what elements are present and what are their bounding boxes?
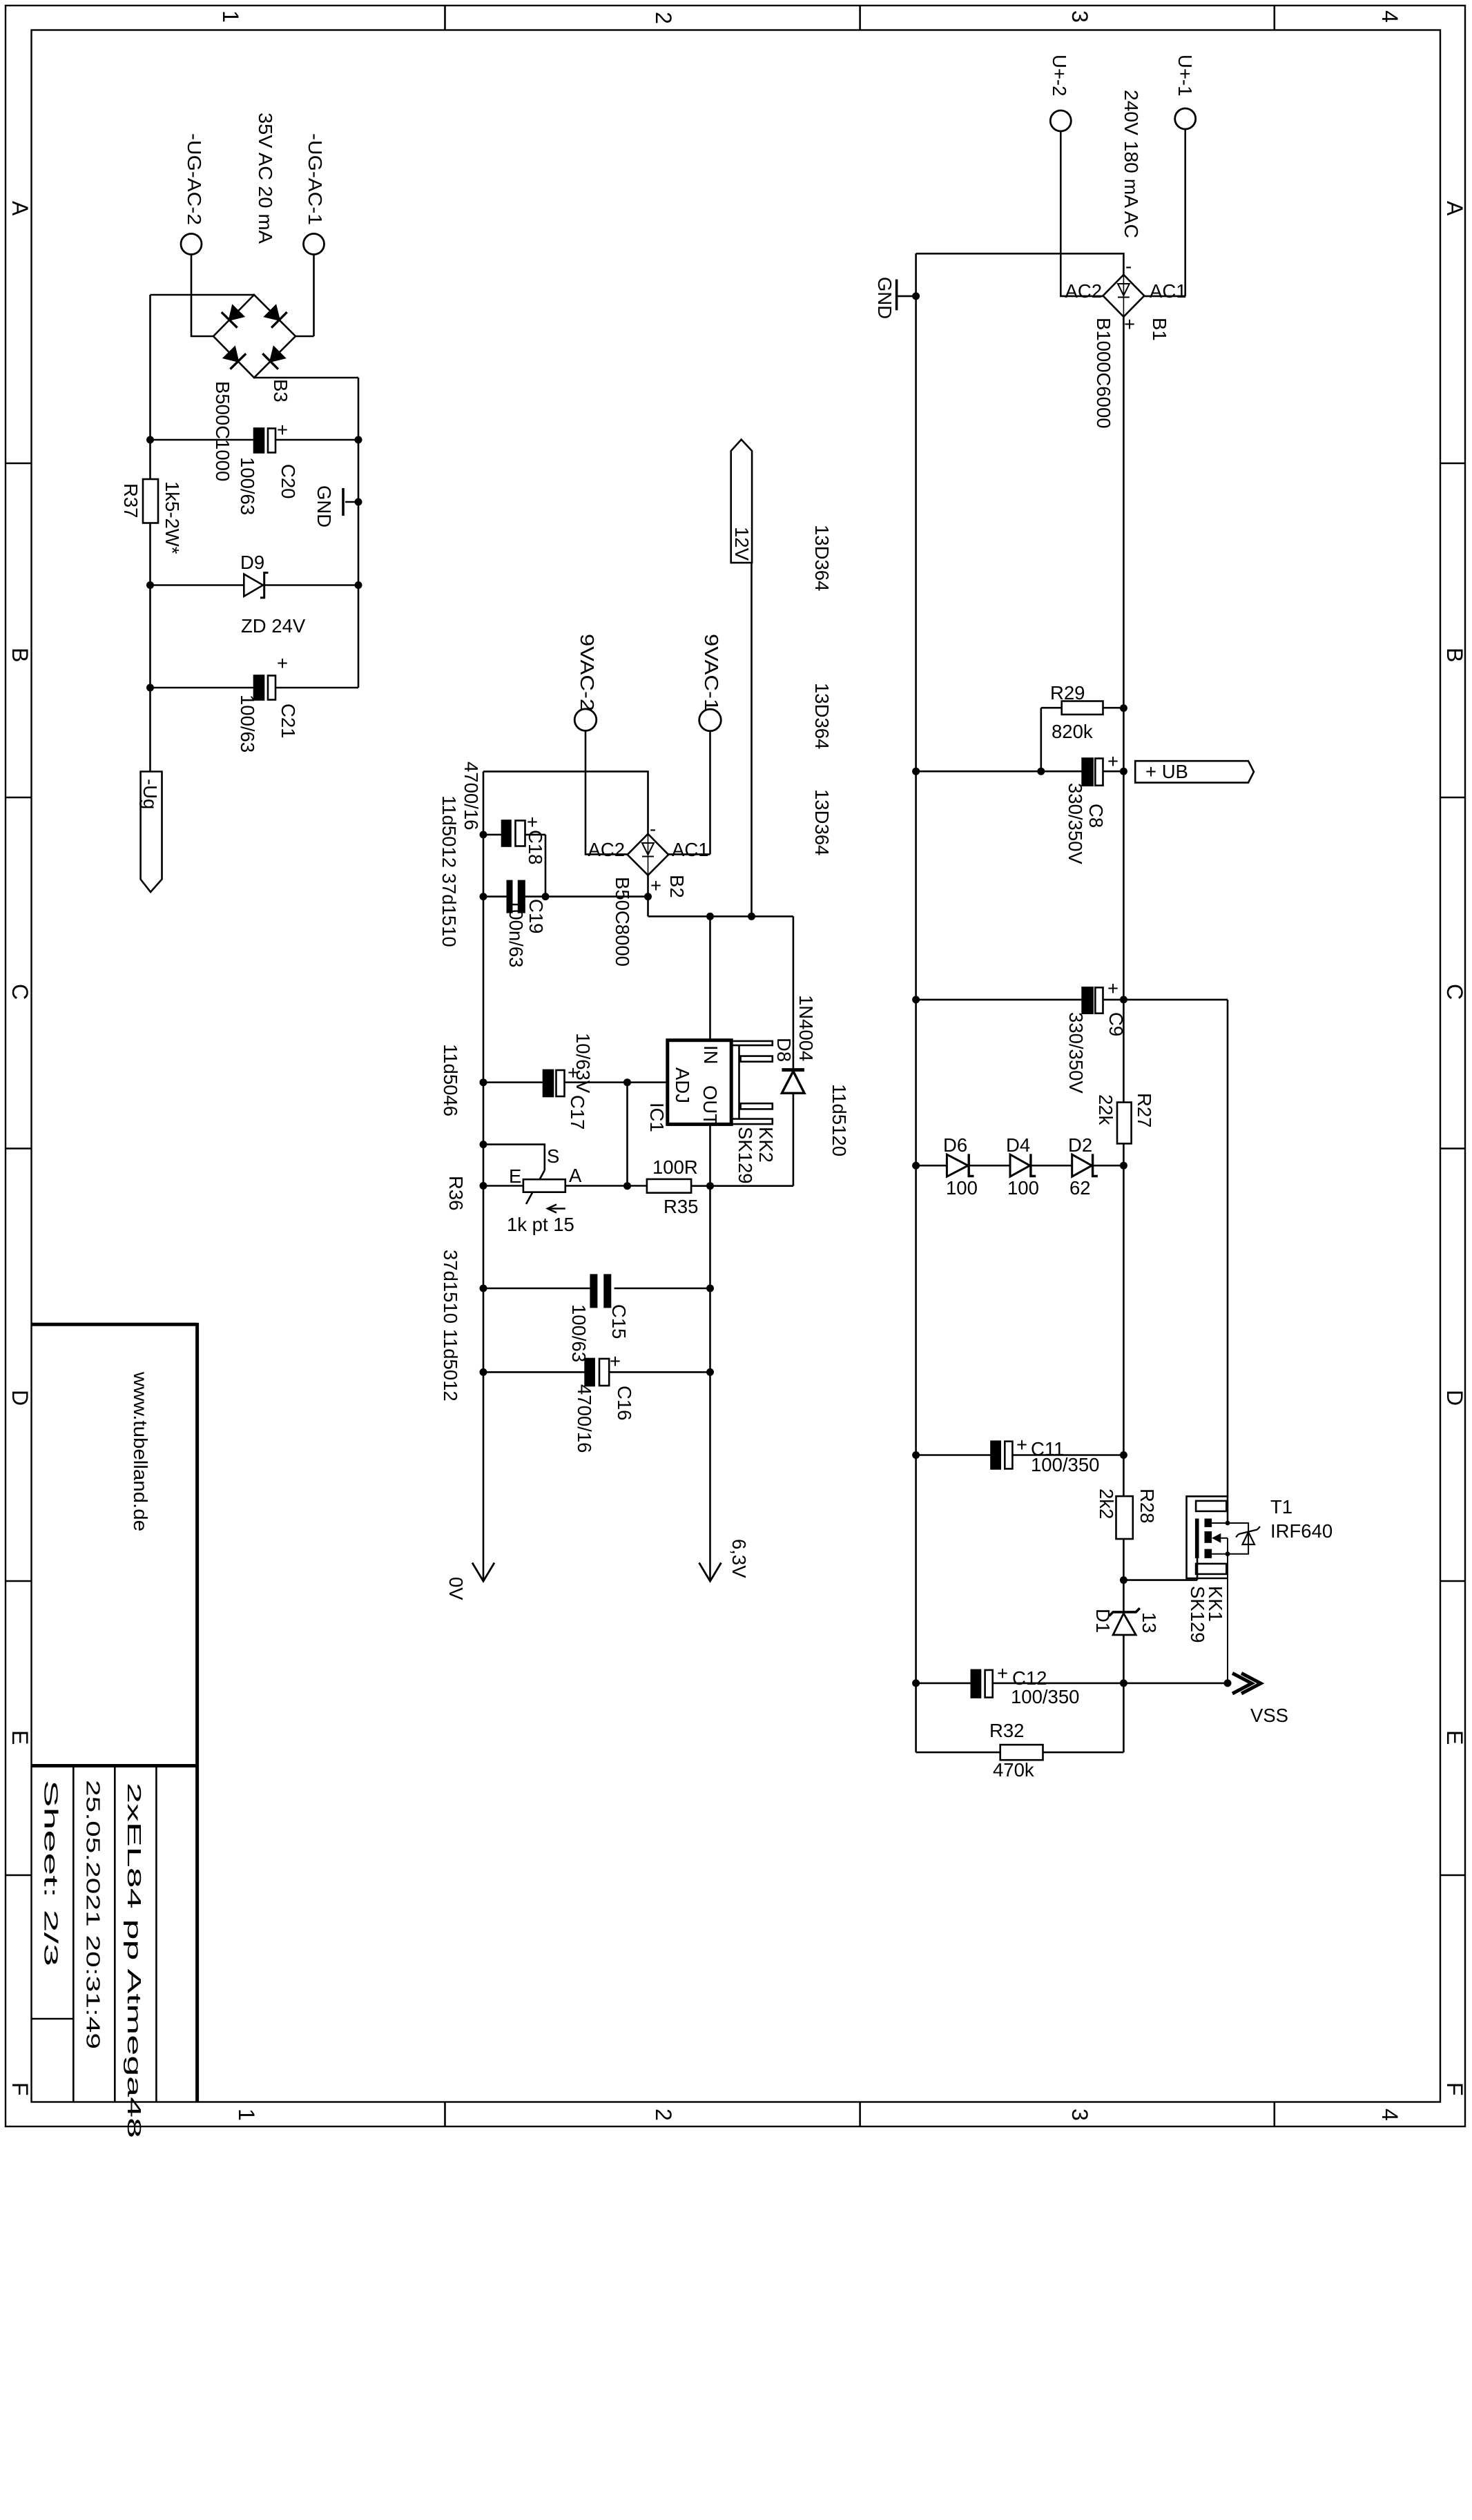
wire C8 row [916,770,1124,773]
svg-text:C8: C8 [1085,804,1107,828]
wire left bus B3 section [149,295,151,772]
diode D8 [782,1072,804,1094]
wire top-left of B3 [151,294,255,296]
svg-text:100/350: 100/350 [1031,1454,1099,1475]
svg-text:240V 180 mA AC: 240V 180 mA AC [1121,90,1142,238]
capacitor C16 [585,1359,594,1386]
resistor R37 [143,479,158,523]
svg-text:-UG-AC-2: -UG-AC-2 [184,133,205,225]
svg-text:1: 1 [234,2109,259,2121]
svg-text:-: - [1125,255,1132,277]
wire A row [565,1185,647,1187]
junction dots middle section [480,831,756,1376]
wire IC1 IN [709,916,711,1040]
svg-text:A: A [8,201,32,216]
bridge B3 diode lower-right [271,347,285,362]
svg-text:+: + [277,652,288,674]
wire right section left bus [915,253,917,1752]
capacitor C18 [502,821,511,846]
svg-text:25.05.2021 20:31:49: 25.05.2021 20:31:49 [82,1780,104,2049]
svg-text:4: 4 [1377,2109,1402,2121]
bridge B2 diamond [628,834,669,875]
svg-text:D: D [1442,1390,1467,1406]
svg-text:B2: B2 [666,875,688,898]
wire C19 row [483,895,648,898]
svg-text:330/350V: 330/350V [1065,1012,1087,1094]
frame inner border [32,30,1441,2102]
svg-text:11d5012 37d1510: 11d5012 37d1510 [438,795,460,947]
svg-text:E: E [1442,1730,1467,1745]
wire B1 minus to left bus [916,253,1124,275]
svg-text:D9: D9 [240,552,264,573]
wire C15 row [483,1288,710,1290]
svg-text:+: + [568,1062,579,1083]
svg-text:R37: R37 [120,483,142,518]
title block column separators [73,1766,156,2102]
potentiometer R36 box [523,1179,565,1192]
capacitor C21 [254,676,264,700]
svg-text:+ UB: + UB [1145,761,1188,782]
svg-text:1N4004: 1N4004 [795,995,817,1061]
svg-text:D: D [8,1390,32,1406]
wire middle 0V bus [483,771,485,1581]
terminal -UG-AC-1 [304,234,325,255]
svg-text:C19: C19 [525,899,547,933]
svg-text:35V AC 20 mA: 35V AC 20 mA [255,113,276,244]
diode D1 zener [1113,1613,1136,1635]
svg-text:D6: D6 [943,1134,967,1156]
flag 12V [731,440,752,563]
svg-text:D1: D1 [1092,1609,1114,1633]
capacitor C8 [1083,759,1093,786]
wire R35 to OUT [691,1185,793,1187]
frame top ruler ticks [445,6,1275,30]
wire C20 row [151,439,359,441]
svg-text:+: + [1107,978,1118,999]
svg-text:AC1: AC1 [1150,280,1187,302]
wire B3 plus to right bus [254,378,358,688]
svg-text:A: A [1442,201,1467,216]
svg-text:330/350V: 330/350V [1065,783,1086,864]
svg-text:KK2: KK2 [755,1127,777,1163]
resistor R27 [1117,1103,1132,1144]
svg-text:100: 100 [1007,1177,1039,1199]
frame right ruler ticks [1440,463,1465,1875]
svg-text:F: F [8,2082,32,2096]
svg-text:C16: C16 [614,1386,635,1420]
capacitor C12 [971,1670,980,1698]
wire 12V down [750,563,753,916]
svg-text:100/63: 100/63 [237,695,258,753]
svg-text:B1000C6000: B1000C6000 [1093,318,1114,429]
svg-text:100/350: 100/350 [1011,1686,1079,1707]
wire 9vac-1 to AC1 [668,731,710,855]
svg-text:U+-1: U+-1 [1174,55,1196,96]
svg-text:100n/63: 100n/63 [505,899,527,967]
wire -ug-ac-1 lead [296,255,314,337]
svg-text:+: + [1124,313,1135,335]
wire gate row [1123,1558,1197,1580]
transistor T1 leads [1212,1523,1248,1683]
svg-text:R27: R27 [1134,1093,1155,1127]
svg-text:-UG-AC-1: -UG-AC-1 [304,133,326,225]
svg-text:2: 2 [651,2109,676,2121]
svg-text:OUT: OUT [699,1085,721,1125]
svg-text:GND: GND [874,277,895,319]
svg-text:C21: C21 [278,704,299,738]
svg-text:AC1: AC1 [672,839,709,860]
bridge B3 diamond [213,295,296,378]
svg-text:C9: C9 [1105,1012,1127,1036]
svg-text:13D364: 13D364 [811,789,833,855]
ground GND (B3) [345,501,358,503]
svg-text:+: + [1016,1434,1027,1455]
arrow 6,3V head [699,1563,722,1582]
wire S row [483,1145,545,1170]
wire diode row [916,1165,1124,1167]
svg-text:T1: T1 [1270,1496,1292,1518]
wire C18 row [483,835,545,897]
transistor T1 body diode [1243,1532,1255,1544]
wire 9vac-2 to AC2 [585,730,628,854]
svg-text:IN: IN [700,1045,722,1065]
resistor R29 [1041,708,1124,771]
svg-text:IC1: IC1 [646,1103,668,1132]
flag -Ug [141,772,162,893]
svg-text:AC2: AC2 [588,839,626,860]
svg-text:2: 2 [651,12,676,24]
svg-text:R36: R36 [445,1176,467,1210]
svg-text:2xEL84 pp Atmega48: 2xEL84 pp Atmega48 [124,1783,145,2138]
wire C11 row [916,1454,1124,1456]
wire main UB bus [1123,317,1125,1752]
svg-text:R32: R32 [989,1720,1024,1741]
resistor R32 [1000,1745,1043,1760]
IC1 box [668,1040,731,1125]
potentiometer R36 wiper [526,1170,545,1204]
wire C16 row [483,1371,710,1373]
wire B2 plus down [647,875,649,917]
svg-text:0V: 0V [445,1577,467,1600]
svg-text:-: - [650,818,656,840]
svg-text:100/63: 100/63 [568,1304,590,1362]
svg-text:13: 13 [1139,1612,1160,1634]
ground GND (right) [897,295,916,298]
wire D9 row [151,584,359,586]
svg-text:D8: D8 [773,1038,795,1062]
svg-text:+: + [527,811,538,833]
bridge B1 diamond [1103,275,1145,317]
svg-text:9VAC-2: 9VAC-2 [577,634,598,711]
transistor T1 pin dots [1226,1521,1230,1557]
svg-text:SK129: SK129 [1187,1586,1208,1643]
svg-text:11d5120: 11d5120 [829,1084,850,1156]
terminal 9VAC-1 [699,709,722,731]
svg-text:A: A [569,1165,582,1186]
wire B2 minus up and left [483,771,648,833]
wire -ug-ac-2 lead [191,255,213,337]
svg-text:ZD 24V: ZD 24V [241,615,306,637]
svg-text:+: + [997,1663,1008,1684]
svg-text:Sheet: 2/3: Sheet: 2/3 [40,1780,61,1966]
wire C12 row [916,1683,1228,1685]
svg-text:R35: R35 [664,1196,698,1217]
svg-text:1k5-2W*: 1k5-2W* [162,481,183,554]
arrow 0V head [472,1563,494,1582]
svg-text:62: 62 [1069,1177,1091,1199]
svg-text:13D364: 13D364 [811,525,833,591]
title block sheet cell divider [32,2018,74,2020]
svg-text:2k2: 2k2 [1096,1489,1117,1519]
bridge B3 diode upper-right [265,306,280,320]
svg-text:E: E [509,1165,521,1187]
terminal U+-1 [1175,108,1196,129]
svg-text:U+-2: U+-2 [1049,55,1070,96]
bridge B3 diode lower-left [224,347,238,362]
svg-text:12V: 12V [731,527,753,561]
wire u+-1 to AC1 [1144,129,1185,296]
svg-text:C18: C18 [525,830,546,864]
svg-text:100/63: 100/63 [237,457,258,515]
svg-text:820k: 820k [1052,721,1093,742]
svg-text:4700/16: 4700/16 [461,762,482,830]
svg-text:C: C [1442,984,1467,1000]
wire IC1 OUT down to 6,3V [709,1124,711,1581]
svg-text:C: C [8,984,32,1000]
svg-text:C20: C20 [278,464,299,498]
svg-text:R28: R28 [1136,1489,1158,1523]
svg-text:F: F [1442,2082,1467,2096]
svg-text:D2: D2 [1068,1134,1092,1156]
svg-text:C17: C17 [567,1095,588,1130]
svg-text:37d1510 11d5012: 37d1510 11d5012 [440,1250,461,1402]
capacitor C19 [507,880,525,913]
svg-text:B: B [1442,648,1467,662]
svg-text:ADJ: ADJ [672,1067,693,1103]
svg-text:9VAC-1: 9VAC-1 [701,634,722,711]
svg-text:B: B [8,648,32,662]
heatsink KK1 [1187,1496,1228,1578]
wire C21 row [151,687,359,689]
svg-text:470k: 470k [993,1759,1034,1781]
svg-text:4700/16: 4700/16 [574,1384,595,1453]
svg-text:www.tubelland.de: www.tubelland.de [130,1371,151,1531]
capacitor C11 [991,1442,1000,1469]
diode D2 [1072,1154,1092,1176]
transistor T1 gate bar [1195,1519,1221,1558]
terminal -UG-AC-2 [181,234,202,255]
svg-text:GND: GND [313,485,335,527]
bridge B2 inner diode [648,834,649,875]
frame left ruler ticks [6,463,32,1875]
heatsink KK2 [732,1041,773,1045]
wire C9 row [916,1000,1228,1523]
wire 12V row [648,916,793,1069]
svg-text:IRF640: IRF640 [1270,1520,1333,1542]
svg-text:3: 3 [1067,2109,1092,2121]
svg-text:B1: B1 [1149,318,1170,341]
terminal U+-2 [1050,110,1071,131]
svg-text:SK129: SK129 [735,1127,756,1184]
svg-text:3: 3 [1067,10,1092,23]
svg-text:E: E [8,1730,32,1745]
junction dots left section [146,436,362,692]
svg-text:B500C1000: B500C1000 [212,381,233,481]
svg-text:B3: B3 [270,379,291,403]
diode D6 [947,1154,968,1176]
svg-text:13D364: 13D364 [811,683,833,749]
svg-text:6,3V: 6,3V [728,1539,750,1578]
svg-text:+: + [650,875,661,896]
bridge B3 diode upper-left [229,306,243,320]
svg-text:4: 4 [1377,10,1402,23]
capacitor C9 [1083,987,1093,1013]
svg-text:100: 100 [946,1177,978,1199]
svg-text:+: + [277,419,288,440]
svg-text:+: + [610,1350,621,1372]
svg-text:+: + [1107,750,1118,772]
junction dots right section [912,292,1231,1687]
svg-text:AC2: AC2 [1065,280,1103,302]
bridge B1 inner diode [1123,275,1124,317]
svg-text:S: S [547,1145,559,1167]
terminal 9VAC-2 [574,709,597,731]
svg-text:1: 1 [218,10,243,23]
svg-text:-Ug: -Ug [139,779,161,809]
svg-text:R29: R29 [1050,682,1085,704]
wire E row [483,1185,523,1187]
diode D4 [1010,1154,1030,1176]
svg-text:22k: 22k [1095,1094,1116,1125]
capacitor C15 [590,1274,611,1308]
title block thick border [32,1323,197,2102]
svg-text:D4: D4 [1006,1134,1030,1156]
wire ADJ row [483,1083,668,1186]
svg-text:100R: 100R [652,1156,698,1178]
capacitor C20 [254,429,264,453]
svg-text:VSS: VSS [1250,1705,1288,1726]
wire R32 row [916,1752,1124,1754]
svg-text:1k pt 15: 1k pt 15 [507,1214,574,1235]
resistor R35 [647,1179,691,1193]
arrow VSS [1241,1674,1261,1694]
resistor R28 [1116,1496,1133,1539]
frame bottom ruler ticks [445,2102,1275,2127]
svg-text:B50C8000: B50C8000 [612,877,633,967]
diode D9 zener [244,574,263,597]
svg-text:C15: C15 [608,1304,630,1339]
flag +UB [1135,761,1254,782]
svg-text:11d5046: 11d5046 [440,1044,461,1116]
wire u+-2 to AC2 [1061,131,1103,296]
capacitor C17 [543,1070,553,1096]
